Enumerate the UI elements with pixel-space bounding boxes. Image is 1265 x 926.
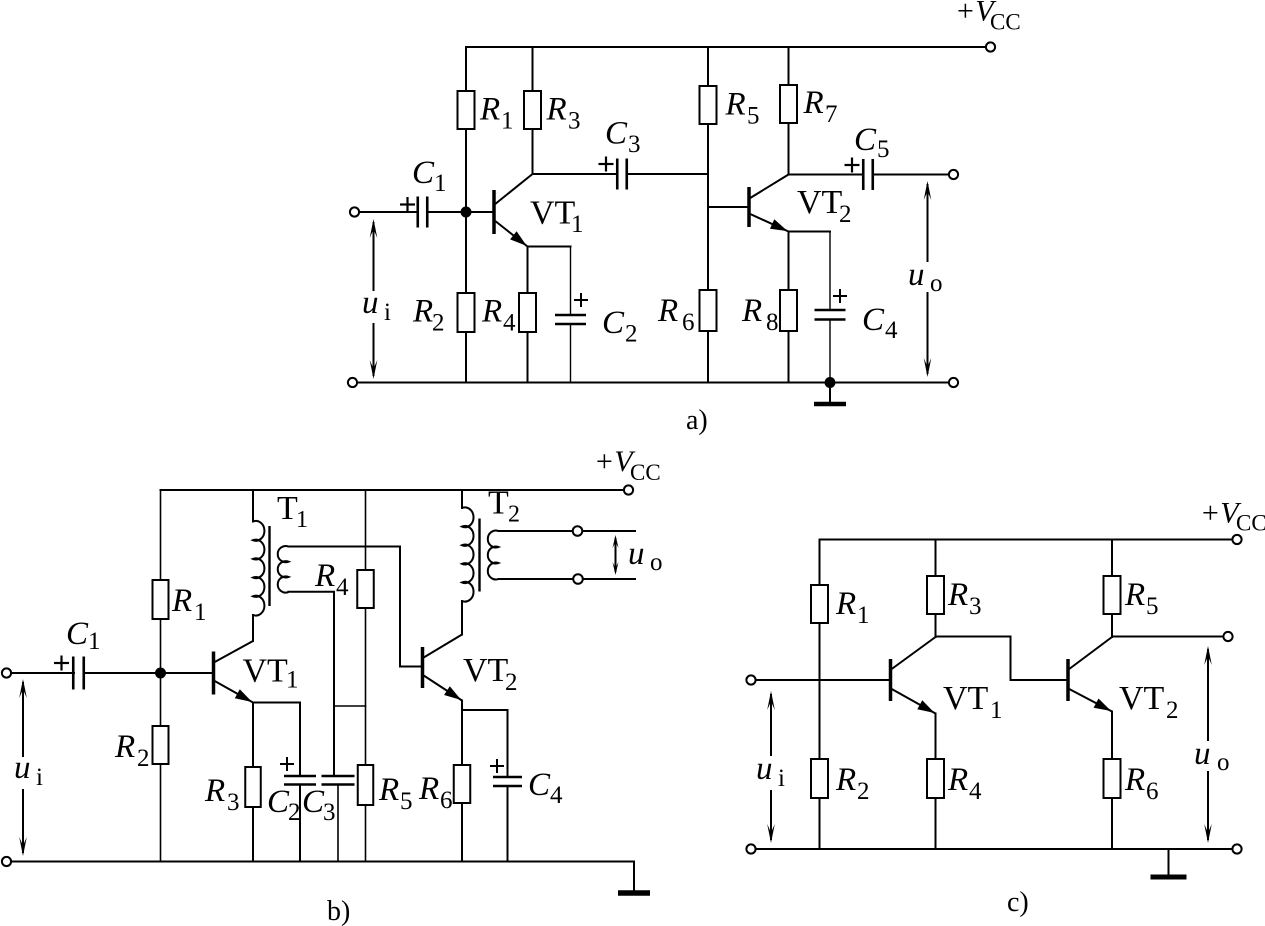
svg-text:1: 1 — [286, 667, 299, 694]
svg-text:3: 3 — [628, 131, 641, 158]
wire: C2 to ground rail (b) — [299, 785, 301, 862]
capacitor C2 (b) — [284, 775, 316, 778]
capacitor C2 (a) — [555, 314, 586, 317]
svg-text:R: R — [546, 92, 567, 128]
svg-text:5: 5 — [747, 103, 760, 130]
wire: T1 secondary bottom lead (b) — [289, 592, 335, 776]
wire: VT2 collector to output (c) — [1112, 636, 1223, 638]
label u_o (a) — [903, 262, 946, 292]
transistor VT2 (a) — [747, 187, 751, 227]
svg-text:CC: CC — [1236, 511, 1265, 536]
wire: VT1 emitter to R4 (c) — [935, 714, 937, 850]
svg-text:8: 8 — [766, 309, 779, 336]
svg-text:u: u — [362, 285, 379, 321]
ground (b) — [618, 890, 650, 896]
svg-text:C: C — [66, 616, 89, 652]
wire: VT1 collector to C3 (a) — [533, 173, 618, 175]
svg-text:u: u — [756, 751, 773, 787]
output terminal top (c) — [1223, 632, 1232, 641]
svg-text:R: R — [741, 293, 762, 329]
resistor R2 (c) — [811, 759, 828, 798]
resistor R3 (b) — [245, 767, 261, 807]
transformer T2 primary winding (b) — [462, 507, 474, 601]
svg-text:u: u — [628, 536, 645, 572]
input terminal top (c) — [746, 675, 755, 684]
svg-text:b): b) — [327, 896, 350, 926]
svg-text:C: C — [412, 155, 435, 191]
svg-text:3: 3 — [969, 593, 982, 620]
wire: emitter to R8 branch (a) — [788, 232, 790, 383]
transistor VT1 (c) — [889, 659, 893, 701]
wire: C1 to VT1 base (b) — [84, 672, 212, 674]
wire: +Vcc top rail (c) — [820, 539, 1233, 541]
resistor R1 (c) — [811, 585, 828, 623]
resistor R1 (a) — [458, 91, 475, 129]
svg-text:R: R — [1124, 762, 1145, 798]
svg-text:1: 1 — [501, 108, 514, 135]
wire: R3 collector branch (a) — [532, 47, 534, 174]
capacitor C3 (a) — [616, 159, 619, 190]
wire: T1 secondary top to VT2 base (b) — [289, 547, 422, 667]
wire: C2 feed (b) — [299, 703, 301, 777]
resistor R2 (a) — [458, 293, 475, 332]
resistor R3 (a) — [524, 91, 541, 129]
label u_o (c) — [1189, 741, 1237, 771]
svg-text:1: 1 — [434, 170, 447, 197]
wire: coupling VT1 collector to VT2 base (c) — [936, 637, 1067, 681]
output terminal bottom (b) — [573, 574, 583, 584]
wire: R6 to ground rail (b) — [461, 803, 463, 862]
wire: VT1 emitter junction to R4 and C2 (a) — [528, 246, 571, 248]
resistor R7 (a) — [780, 85, 797, 123]
wire: R3 to ground rail (b) — [252, 807, 254, 862]
wire: C4 to ground rail (a) — [829, 320, 831, 383]
wire: VT2 emitter to R6 (b) — [461, 701, 463, 766]
wire: VT1 emitter junction (b) — [253, 702, 300, 704]
svg-text:R: R — [479, 92, 500, 128]
wire: VT2 emitter to R6 (c) — [1111, 712, 1113, 850]
input terminal bottom (a) — [348, 378, 357, 387]
resistor R8 (a) — [780, 290, 797, 331]
svg-text:5: 5 — [877, 136, 890, 163]
wire: R1-R2 bias branch (b) — [160, 490, 162, 862]
arrow u_o (a) — [927, 184, 929, 374]
svg-text:1: 1 — [88, 628, 101, 655]
ground (c) — [1168, 849, 1170, 875]
arrow u_o (b) — [615, 538, 617, 572]
svg-text:4: 4 — [550, 782, 563, 809]
arrow u_i (c) — [770, 694, 772, 840]
svg-text:6: 6 — [440, 787, 453, 814]
svg-text:7: 7 — [825, 101, 838, 128]
input terminal bottom (c) — [746, 844, 755, 853]
svg-text:R: R — [412, 294, 433, 330]
transistor VT2 (b) — [421, 647, 425, 688]
svg-text:R: R — [835, 586, 856, 622]
svg-text:T: T — [277, 490, 298, 527]
svg-text:a): a) — [686, 405, 708, 436]
capacitor C1 (b) — [72, 657, 75, 690]
svg-text:C: C — [862, 302, 885, 338]
wire: VT2 collector to T2 primary (b) — [461, 601, 463, 635]
wire: R5 collector branch (c) — [1111, 540, 1113, 638]
resistor R1 (b) — [153, 580, 169, 619]
wire: C4 to ground rail (b) — [507, 786, 509, 862]
wire: VT2 emitter junction (a) — [789, 231, 831, 233]
svg-text:C: C — [602, 305, 625, 341]
svg-text:u: u — [1194, 736, 1211, 772]
svg-text:C: C — [854, 122, 877, 158]
arrow u_i (b) — [22, 682, 24, 853]
svg-text:VT: VT — [1119, 680, 1165, 717]
node: VT1 base junction (a) — [461, 207, 472, 218]
wire: emitter to R4 branch (a) — [527, 247, 529, 383]
wire: C2 to ground rail (a) — [570, 324, 572, 383]
svg-text:6: 6 — [1146, 778, 1159, 805]
transformer T1 primary winding (b) — [253, 521, 264, 616]
resistor R6 (c) — [1104, 759, 1121, 798]
wire: +Vcc top rail (b) — [161, 489, 624, 491]
wire: R4-R5 branch (b) — [365, 490, 367, 862]
svg-text:C: C — [605, 116, 628, 152]
svg-text:2: 2 — [839, 201, 852, 228]
svg-text:VT: VT — [243, 653, 289, 690]
wire: emitter to R3 (b) — [252, 703, 254, 768]
svg-text:2: 2 — [288, 799, 301, 826]
transistor VT1 (b) — [212, 652, 216, 695]
svg-text:2: 2 — [1166, 697, 1179, 724]
transformer T1 core (b) — [268, 526, 270, 606]
svg-text:R: R — [114, 729, 135, 765]
capacitor C4 (b) — [493, 776, 522, 779]
svg-text:R: R — [171, 583, 192, 619]
wire: C4 feed (a) — [829, 232, 831, 311]
svg-text:R: R — [803, 85, 824, 121]
wire: VT2 collector to C5 (a) — [789, 174, 864, 176]
transformer T1 secondary winding (b) — [278, 546, 289, 593]
node: ground junction (a) — [825, 377, 836, 388]
svg-text:5: 5 — [1146, 593, 1159, 620]
svg-text:VT: VT — [463, 652, 509, 689]
label u_i (a) — [357, 291, 396, 323]
svg-text:1: 1 — [857, 602, 870, 629]
svg-text:i: i — [384, 299, 391, 326]
svg-text:C: C — [302, 784, 325, 820]
svg-text:o: o — [650, 549, 663, 576]
output terminal bottom (c) — [1232, 844, 1241, 853]
ground (a) — [829, 383, 831, 403]
svg-text:2: 2 — [432, 310, 445, 337]
svg-text:2: 2 — [625, 321, 638, 348]
svg-text:2: 2 — [505, 669, 518, 696]
transformer T2 core (b) — [478, 519, 480, 592]
arrow u_o (c) — [1207, 649, 1209, 840]
svg-text:VT: VT — [943, 680, 989, 717]
capacitor C4 (a) — [815, 309, 846, 312]
svg-text:o: o — [930, 270, 943, 297]
svg-text:c): c) — [1007, 887, 1029, 918]
wire: R1-R2 bias branch (a) — [465, 47, 467, 383]
wire: R7 collector branch (a) — [788, 47, 790, 175]
wire: T2 secondary top lead (b) — [499, 530, 636, 532]
svg-text:i: i — [36, 764, 43, 791]
resistor R4 (c) — [927, 759, 944, 798]
resistor R6 (a) — [700, 290, 717, 331]
resistor R5 (a) — [700, 86, 717, 124]
transistor VT1 (a) — [492, 190, 496, 234]
wire: R1-R2 bias branch (c) — [819, 540, 821, 850]
capacitor C3 (b) — [322, 775, 355, 778]
svg-text:C: C — [528, 767, 551, 803]
transformer T2 primary feed (b) — [461, 490, 463, 508]
wire: VT1 collector to T1 primary (b) — [252, 615, 254, 641]
svg-text:VT: VT — [797, 184, 843, 221]
transistor VT2 (c) — [1066, 659, 1070, 701]
svg-text:R: R — [418, 771, 439, 807]
wire: C3 to VT2 bias branch (a) — [627, 173, 708, 175]
svg-text:1: 1 — [990, 697, 1003, 724]
input terminal top (b) — [2, 668, 11, 677]
capacitor C1 (a) — [416, 197, 419, 228]
wire: input to VT1 base (c) — [756, 679, 890, 681]
power terminal +Vcc (a) — [986, 42, 995, 51]
svg-text:R: R — [1124, 577, 1145, 613]
capacitor C5 (a) — [862, 159, 865, 190]
resistor R5 (c) — [1104, 576, 1121, 614]
resistor R2 (b) — [153, 726, 169, 764]
wire: input to C1 (b) — [11, 672, 74, 674]
svg-text:R: R — [725, 87, 746, 123]
svg-text:R: R — [378, 772, 399, 808]
svg-text:R: R — [947, 762, 968, 798]
wire: T2 secondary bottom lead (b) — [499, 578, 636, 580]
resistor R5 (b) — [358, 765, 374, 805]
wire: C3 to ground rail (b) — [337, 785, 339, 862]
transformer T1 primary feed (b) — [252, 490, 254, 522]
resistor R3 (c) — [927, 576, 944, 614]
svg-text:i: i — [778, 765, 785, 792]
svg-text:T: T — [488, 485, 509, 522]
wire: R5-R6 bias branch (a) — [707, 47, 709, 383]
svg-text:3: 3 — [227, 789, 240, 816]
svg-text:R: R — [835, 762, 856, 798]
svg-text:R: R — [314, 558, 335, 594]
svg-text:4: 4 — [503, 310, 516, 337]
svg-text:3: 3 — [568, 108, 581, 135]
svg-text:1: 1 — [296, 507, 308, 533]
wire: C2 feed (a) — [570, 247, 572, 316]
svg-text:VT: VT — [530, 195, 576, 232]
svg-text:o: o — [1217, 749, 1230, 776]
svg-text:5: 5 — [400, 788, 413, 815]
svg-text:6: 6 — [682, 309, 695, 336]
svg-text:R: R — [481, 294, 502, 330]
wire: bottom common rail (a) — [357, 382, 949, 384]
svg-text:R: R — [204, 773, 225, 809]
output terminal bottom (a) — [949, 378, 958, 387]
svg-text:CC: CC — [990, 10, 1021, 35]
input terminal top (a) — [350, 207, 359, 216]
wire: input to C1 (a) — [359, 211, 418, 213]
wire: bottom common rail (c) — [756, 848, 1233, 850]
power terminal +Vcc (c) — [1232, 535, 1241, 544]
svg-text:4: 4 — [885, 317, 898, 344]
label u_i (b) — [9, 757, 48, 789]
svg-text:2: 2 — [857, 778, 870, 805]
label u_i (c) — [751, 756, 796, 790]
svg-text:4: 4 — [969, 778, 982, 805]
svg-text:C: C — [267, 784, 290, 820]
input terminal bottom (b) — [2, 857, 11, 866]
output terminal top (a) — [949, 170, 958, 179]
svg-text:4: 4 — [336, 574, 349, 601]
svg-text:2: 2 — [508, 502, 520, 528]
wire: C5 to output terminal (a) — [873, 174, 949, 176]
svg-text:3: 3 — [323, 799, 336, 826]
node: VT1 base junction (b) — [155, 668, 166, 679]
resistor R4 (a) — [519, 293, 536, 332]
wire: +Vcc top rail (a) — [466, 46, 985, 48]
transformer T2 secondary winding (b) — [488, 531, 499, 580]
wire: base feed VT2 (a) — [708, 206, 747, 208]
wire: C1 to VT1 base (a) — [427, 211, 492, 213]
svg-text:CC: CC — [630, 460, 661, 485]
power terminal +Vcc (b) — [624, 485, 633, 494]
svg-text:1: 1 — [194, 599, 207, 626]
resistor R6 (b) — [454, 765, 471, 803]
resistor R4 (b) — [357, 570, 374, 608]
svg-text:R: R — [657, 293, 678, 329]
wire: R3 collector branch (c) — [935, 540, 937, 638]
svg-text:R: R — [947, 577, 968, 613]
wire: emitter link to C4 (b) — [462, 710, 508, 777]
wire: bias link to R4/R5 junction (b) — [334, 705, 366, 707]
output terminal top (b) — [573, 526, 583, 536]
svg-text:2: 2 — [137, 745, 150, 772]
wire: bottom common rail (b) — [11, 862, 634, 892]
svg-text:1: 1 — [571, 211, 584, 238]
arrow u_i (a) — [373, 222, 375, 376]
svg-text:u: u — [14, 750, 31, 786]
svg-text:u: u — [908, 257, 925, 293]
